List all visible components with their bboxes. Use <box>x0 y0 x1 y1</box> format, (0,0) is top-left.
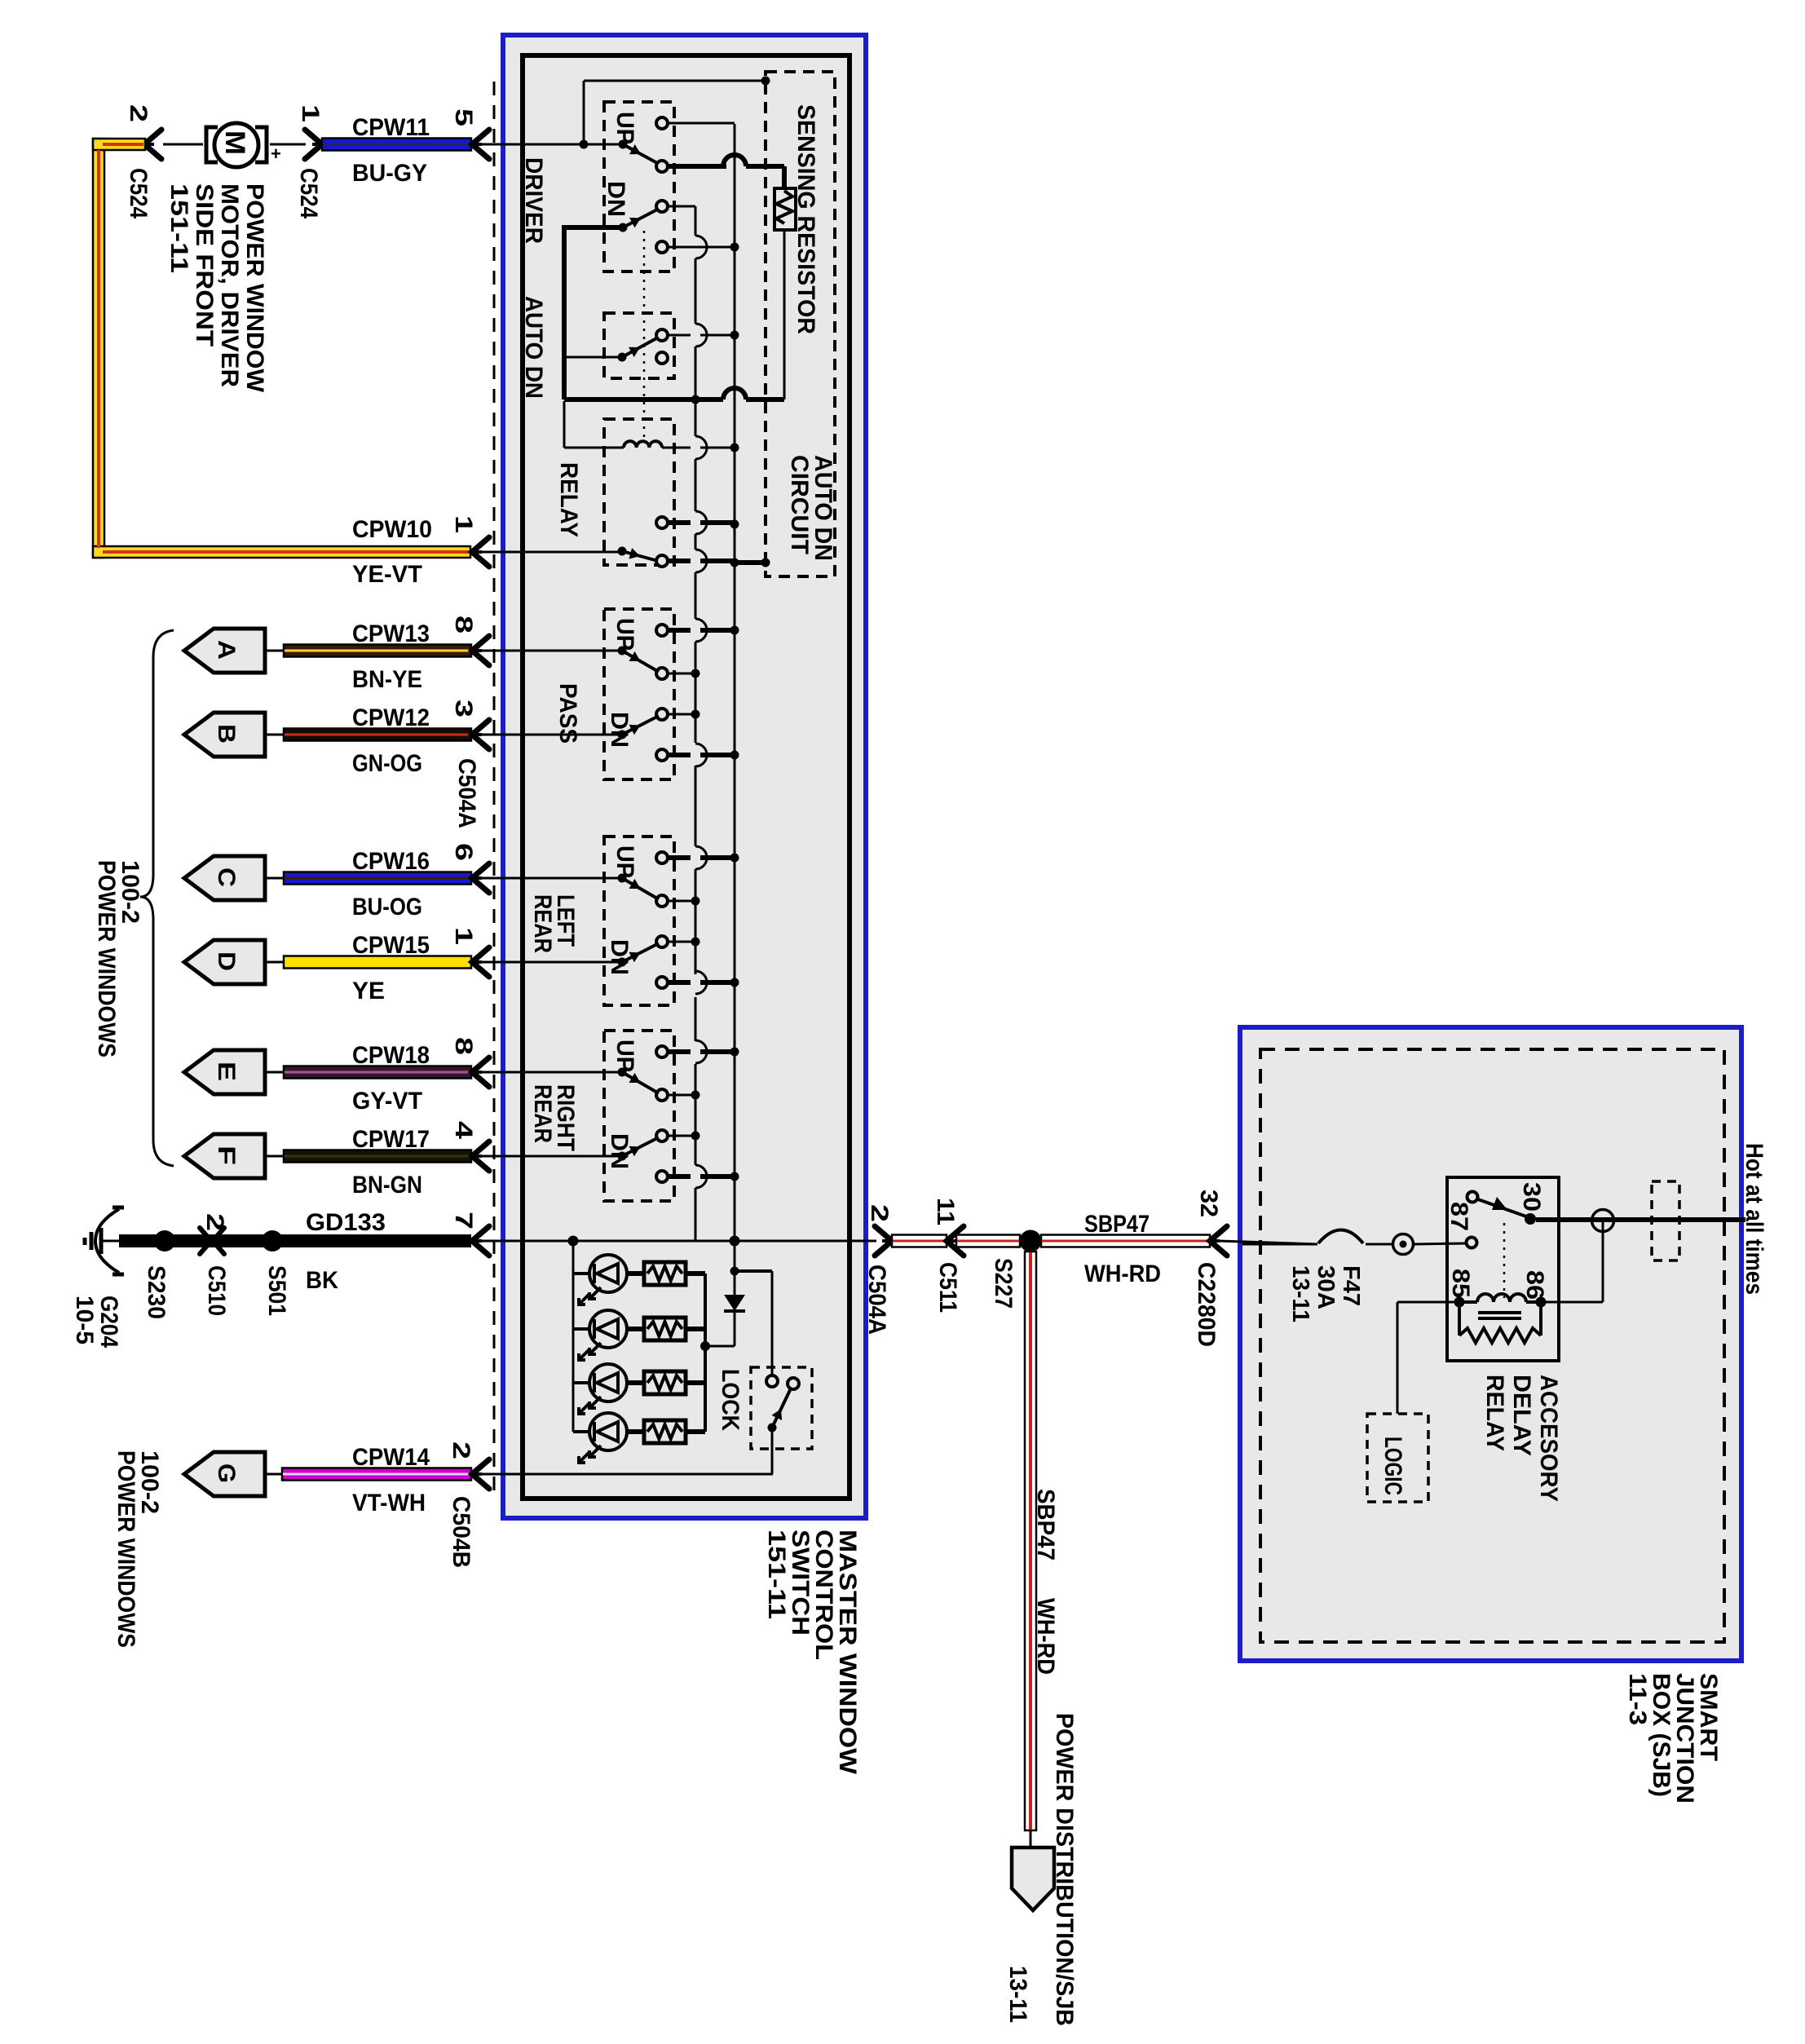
svg-text:8: 8 <box>450 616 477 634</box>
wire SBP47 WH-RD vertical <box>1025 1252 1059 1830</box>
power window motor M1 <box>163 123 306 167</box>
relay dashed box <box>604 419 674 565</box>
svg-text:DELAY: DELAY <box>1508 1375 1535 1456</box>
wire CPW17 BN-GN <box>284 1126 471 1199</box>
pin 8 arrow for CPW13 <box>450 616 622 665</box>
svg-text:D: D <box>213 951 240 971</box>
svg-text:1: 1 <box>450 927 477 945</box>
svg-text:CPW10: CPW10 <box>352 516 432 543</box>
pin 8 arrow for CPW18 <box>450 1037 622 1087</box>
label 100-2 POWER WINDOWS (A-F) <box>93 860 143 1057</box>
svg-text:87: 87 <box>1445 1202 1472 1231</box>
svg-text:8: 8 <box>450 1037 477 1055</box>
pin7 to pin2 internal bus <box>482 1236 876 1247</box>
svg-text:MOTOR, DRIVER: MOTOR, DRIVER <box>216 183 243 387</box>
svg-text:13-11: 13-11 <box>1004 1966 1031 2023</box>
svg-text:2: 2 <box>125 104 152 122</box>
splice S230 <box>143 1230 175 1319</box>
svg-text:G: G <box>213 1463 240 1483</box>
bus V1 <box>695 206 697 1241</box>
svg-text:10-5: 10-5 <box>71 1296 98 1344</box>
section label DRIVER <box>520 157 547 244</box>
svg-text:CPW13: CPW13 <box>352 620 430 647</box>
relay coil 85-86 <box>1447 1269 1548 1343</box>
lock dashed box <box>751 1367 812 1449</box>
wire CPW18 GY-VT <box>284 1042 471 1115</box>
connector pin E <box>184 1050 284 1094</box>
svg-text:BN-GN: BN-GN <box>352 1172 422 1199</box>
right-rear switch dashed box <box>604 1031 674 1201</box>
svg-text:C524: C524 <box>125 168 152 219</box>
svg-text:DRIVER: DRIVER <box>520 157 547 244</box>
svg-text:VT-WH: VT-WH <box>352 1490 426 1516</box>
section label RIGHT REAR <box>529 1084 579 1151</box>
wire CPW15 YE <box>284 932 471 1004</box>
label POWER DISTRIBUTION/SJB 13-11 <box>1004 1713 1078 2026</box>
inline connector C510 <box>200 1213 230 1316</box>
driver section switches <box>564 112 739 258</box>
svg-text:YE-VT: YE-VT <box>352 561 422 588</box>
smart junction box SJB (blue) <box>1240 1027 1741 1661</box>
pin 32 arrow C2280D <box>1193 1190 1317 1347</box>
label F47 30A 13-11 <box>1287 1265 1364 1322</box>
svg-text:5: 5 <box>450 108 477 126</box>
svg-text:+: + <box>271 143 281 164</box>
svg-text:A: A <box>213 640 240 660</box>
svg-text:C510: C510 <box>203 1265 230 1316</box>
svg-text:2: 2 <box>866 1204 893 1222</box>
svg-text:UP: UP <box>611 618 638 651</box>
pin 5 arrow (master switch) <box>450 108 623 159</box>
svg-text:CIRCUIT: CIRCUIT <box>786 455 813 554</box>
svg-text:11: 11 <box>932 1198 959 1225</box>
svg-text:G204: G204 <box>95 1296 122 1348</box>
svg-text:CPW15: CPW15 <box>352 932 430 959</box>
svg-text:CPW17: CPW17 <box>352 1126 430 1153</box>
svg-text:6: 6 <box>450 843 477 861</box>
pin 1 arrow (master switch) <box>450 515 622 567</box>
svg-text:UP: UP <box>611 1040 638 1072</box>
svg-text:1: 1 <box>450 515 477 533</box>
wire WH-RD (C511 to S227) <box>956 1235 1020 1247</box>
connector pin G <box>184 1452 282 1496</box>
inline connector C511 <box>932 1198 964 1313</box>
svg-text:CPW18: CPW18 <box>352 1042 430 1069</box>
svg-text:7: 7 <box>450 1212 477 1229</box>
svg-text:S230: S230 <box>143 1265 170 1319</box>
svg-text:POWER WINDOW: POWER WINDOW <box>241 183 268 393</box>
svg-text:C504A: C504A <box>863 1265 890 1335</box>
connector pin A <box>184 629 284 673</box>
LED resistor bus <box>700 1274 710 1432</box>
svg-text:13-11: 13-11 <box>1287 1265 1313 1322</box>
relay switch <box>618 511 770 572</box>
pin 7 arrow (master switch) <box>450 1212 489 1256</box>
dashed component on hot line <box>1652 1181 1679 1260</box>
lock switch feed <box>730 1267 773 1376</box>
svg-text:C504B: C504B <box>448 1496 474 1568</box>
svg-text:1: 1 <box>297 104 324 122</box>
svg-text:SIDE FRONT: SIDE FRONT <box>191 183 218 347</box>
auto-dn circuit dashed box <box>766 72 835 576</box>
label LOGIC <box>1379 1437 1406 1495</box>
svg-text:B: B <box>213 724 240 744</box>
fuse F47 30A <box>1242 1230 1466 1255</box>
svg-text:85: 85 <box>1447 1269 1474 1298</box>
label SMART JUNCTION BOX (SJB) 11-3 <box>1624 1673 1722 1803</box>
svg-text:C504A: C504A <box>453 758 480 828</box>
svg-text:REAR: REAR <box>529 1084 556 1143</box>
svg-text:151-11: 151-11 <box>165 183 192 273</box>
label 100-2 POWER WINDOWS (G) <box>113 1450 163 1648</box>
svg-text:2: 2 <box>448 1441 474 1459</box>
svg-text:UP: UP <box>611 112 638 144</box>
motor label <box>165 183 268 393</box>
svg-text:CPW12: CPW12 <box>352 704 430 731</box>
svg-text:C524: C524 <box>295 168 322 219</box>
svg-text:C511: C511 <box>934 1262 961 1313</box>
svg-text:UP: UP <box>611 845 638 878</box>
svg-text:E: E <box>213 1062 240 1081</box>
pin 3 arrow for CPW12 <box>450 700 622 749</box>
wire CPW16 BU-OG <box>284 848 471 920</box>
section label PASS <box>554 683 581 744</box>
svg-text:WH-RD: WH-RD <box>1032 1598 1059 1675</box>
svg-text:POWER WINDOWS: POWER WINDOWS <box>113 1450 139 1648</box>
svg-text:32: 32 <box>1195 1190 1222 1217</box>
svg-text:REAR: REAR <box>529 894 556 953</box>
wire pin5 junction riser <box>580 77 770 149</box>
svg-text:S501: S501 <box>263 1265 290 1316</box>
svg-text:M: M <box>219 130 250 155</box>
left-rear section switches <box>606 845 739 994</box>
auto-dn switch dashed box <box>604 313 674 378</box>
wire SBP47 WH-RD (S227 to SJB) <box>1041 1211 1210 1287</box>
label Hot at all times <box>1741 1143 1767 1295</box>
svg-text:DN: DN <box>602 181 629 217</box>
brace for power windows connectors A-F <box>140 630 174 1166</box>
svg-text:4: 4 <box>450 1121 477 1139</box>
connector pin D <box>184 940 284 984</box>
pass section switches <box>606 618 739 766</box>
wire CPW10 YE-VT loop <box>93 139 470 588</box>
svg-text:GD133: GD133 <box>306 1209 386 1236</box>
splice S227 <box>990 1230 1042 1309</box>
svg-text:C2280D: C2280D <box>1193 1262 1220 1347</box>
pin 6 arrow for CPW16 <box>450 843 622 893</box>
relay mechanical link <box>643 231 646 441</box>
svg-text:LOGIC: LOGIC <box>1379 1437 1406 1495</box>
bus V2 <box>734 124 736 1295</box>
lock switch <box>766 1375 799 1474</box>
section label LEFT REAR <box>529 894 579 953</box>
wire 86 to hot line <box>1541 1221 1603 1302</box>
svg-text:CPW14: CPW14 <box>352 1444 430 1471</box>
pin 4 arrow for CPW17 <box>450 1121 622 1171</box>
left-rear switch dashed box <box>604 837 674 1005</box>
auto-dn switch <box>564 324 739 364</box>
svg-text:SBP47: SBP47 <box>1084 1211 1150 1238</box>
connector C504A label (left) <box>453 758 480 828</box>
accessory delay relay box <box>1447 1177 1559 1361</box>
svg-text:151-11: 151-11 <box>763 1530 790 1619</box>
ground symbol G204 <box>85 1207 124 1274</box>
connector pin F <box>184 1134 284 1178</box>
svg-text:11-3: 11-3 <box>1624 1673 1651 1725</box>
svg-text:DN: DN <box>606 939 633 975</box>
svg-text:POWER DISTRIBUTION/SJB: POWER DISTRIBUTION/SJB <box>1051 1713 1078 2026</box>
svg-text:BU-GY: BU-GY <box>352 160 427 187</box>
pin 2 arrow C504B <box>448 1441 489 1568</box>
LED indicator array with resistors <box>573 1241 705 1463</box>
wire CPW11 BU-GY <box>322 114 471 187</box>
svg-text:SBP47: SBP47 <box>1032 1489 1059 1561</box>
svg-text:CPW11: CPW11 <box>352 114 430 141</box>
svg-text:POWER WINDOWS: POWER WINDOWS <box>93 860 120 1057</box>
power distribution arrow (down pentagon) <box>1012 1830 1054 1910</box>
svg-text:30A: 30A <box>1313 1265 1339 1309</box>
section label RELAY <box>555 462 582 537</box>
svg-text:BK: BK <box>306 1267 338 1294</box>
connector C504 dashed boundary line <box>493 82 496 1493</box>
svg-text:F: F <box>213 1146 240 1165</box>
svg-text:DN: DN <box>606 712 633 748</box>
driver switch dashed box <box>604 102 674 272</box>
svg-text:Hot at all times: Hot at all times <box>1741 1143 1767 1295</box>
connector C524 pin 2 arrow <box>125 104 161 219</box>
wire GD133 BK <box>119 1209 471 1294</box>
label LOCK <box>717 1369 744 1431</box>
svg-text:BU-OG: BU-OG <box>352 894 422 920</box>
label ACCESORY DELAY RELAY <box>1481 1375 1562 1502</box>
sensing resistor R1 <box>667 155 796 400</box>
svg-text:WH-RD: WH-RD <box>1084 1260 1161 1287</box>
svg-text:GN-OG: GN-OG <box>352 750 422 777</box>
svg-text:PASS: PASS <box>554 683 581 744</box>
svg-text:BN-YE: BN-YE <box>352 666 422 693</box>
relay blade (SJB) <box>1476 1197 1526 1216</box>
auto-dn thick link <box>564 225 784 404</box>
wire CPW13 BN-YE <box>284 620 471 693</box>
svg-text:DN: DN <box>606 1133 633 1169</box>
svg-text:YE: YE <box>352 978 385 1004</box>
master window control switch box (blue) <box>503 35 866 1518</box>
svg-text:F47: F47 <box>1338 1265 1364 1306</box>
wire CPW12 GN-OG <box>284 704 471 777</box>
svg-text:GY-VT: GY-VT <box>352 1088 422 1115</box>
wire CPW14 VT-WH <box>282 1444 471 1516</box>
svg-text:LOCK: LOCK <box>717 1369 744 1431</box>
label G204 10-5 <box>71 1296 122 1348</box>
connector C524 pin 1 arrow <box>295 104 324 219</box>
svg-text:RELAY: RELAY <box>1481 1375 1508 1451</box>
svg-text:AUTO DN: AUTO DN <box>520 296 547 399</box>
relay coil (auto-dn relay) <box>564 401 739 459</box>
hot feed heavy line <box>1536 1217 1745 1222</box>
splice S501 <box>262 1230 290 1316</box>
pin 2 C504B internal wire <box>482 1473 773 1476</box>
svg-text:S227: S227 <box>990 1258 1017 1309</box>
svg-text:CPW16: CPW16 <box>352 848 430 875</box>
logic dashed box <box>1367 1414 1428 1502</box>
svg-text:C: C <box>213 867 240 887</box>
wire WH-RD (C504A to C511) <box>892 1235 947 1247</box>
label AUTO DN CIRCUIT <box>786 455 836 561</box>
pin 2 arrow C504A (out) <box>863 1204 893 1335</box>
junction ring <box>1592 1210 1614 1232</box>
connector pin C <box>184 856 284 900</box>
diode D1 <box>705 1241 745 1346</box>
master window control switch inner box <box>523 55 850 1499</box>
svg-text:RELAY: RELAY <box>555 462 582 537</box>
section label AUTO DN <box>520 296 547 399</box>
SJB inner dashed box <box>1260 1049 1724 1642</box>
relay pivot 87 <box>1445 1192 1478 1248</box>
relay mechanical link (SJB) <box>1503 1223 1506 1298</box>
pin 1 arrow for CPW15 <box>450 927 622 977</box>
svg-text:2: 2 <box>201 1213 228 1231</box>
wire 85 to logic <box>1397 1302 1456 1414</box>
right-rear section switches <box>606 1040 739 1188</box>
label SENSING RESISTOR <box>792 104 819 334</box>
pass switch dashed box <box>604 609 674 779</box>
svg-text:3: 3 <box>450 700 477 717</box>
svg-text:ACCESORY: ACCESORY <box>1535 1375 1562 1502</box>
svg-text:30: 30 <box>1518 1182 1545 1212</box>
svg-text:86: 86 <box>1521 1270 1548 1300</box>
relay contact 30 <box>1518 1182 1545 1225</box>
connector pin B <box>184 713 284 757</box>
label master window control switch <box>763 1530 861 1775</box>
